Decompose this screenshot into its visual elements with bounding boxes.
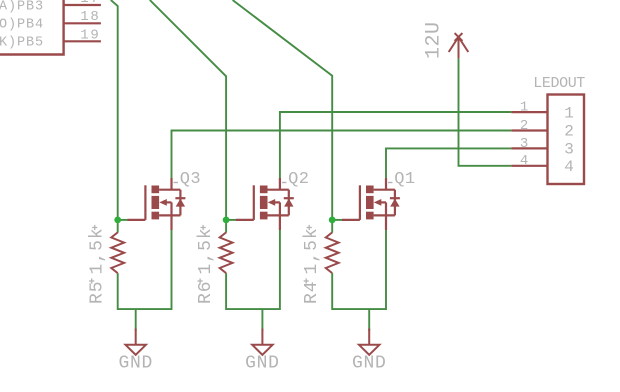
origin cross of R4 name [304,278,309,283]
svg-text:Q3: Q3 [180,170,201,189]
svg-text:Q2: Q2 [288,170,309,189]
svg-text:A)PB3: A)PB3 [0,0,44,14]
svg-text:R6: R6 [196,280,216,304]
svg-text:1,5k: 1,5k [302,227,322,274]
svg-text:1: 1 [520,100,528,116]
origin cross of R4 value [307,225,312,230]
ground symbol at x=262.4 [252,329,272,355]
LEDOUT pin 2 stub [511,129,547,131]
junction dot at Q1 gate node [329,217,336,224]
svg-text:1: 1 [564,104,574,122]
svg-text:GND: GND [352,354,387,374]
wire: Q3 drain to LEDOUT pin 2 [172,131,512,181]
transistor Q1 [342,178,400,230]
svg-text:2: 2 [564,123,574,141]
wire: R6 bottom to ground rail and up to Q2 source [226,228,280,309]
svg-text:O)PB4: O)PB4 [0,18,44,33]
svg-text:3: 3 [564,141,574,159]
wire: Q1 gate lead (net side) [332,219,343,221]
svg-text:Q1: Q1 [394,170,415,189]
IC U1 box (partial, top-left) [0,0,64,55]
wire: Q2 gate lead (net side) [226,219,237,221]
IC pin PB4 (pin 18) [64,22,101,24]
origin mark Q2 [282,182,287,184]
LEDOUT pin 1 stub [511,111,547,113]
wire: diagonal net to Q2 gate [150,0,226,233]
wire: R5 bottom to ground rail and up to Q3 source [118,228,172,309]
ground symbol at x=369.2 [359,329,379,355]
origin cross of R6 name [198,278,203,283]
wire: Q3 gnd stub [135,309,137,331]
svg-text:17: 17 [80,0,100,7]
LEDOUT pin 4 stub [511,165,547,167]
svg-text:1,5k: 1,5k [196,227,216,274]
svg-text:4: 4 [520,153,528,169]
transistor Q3 [128,178,186,230]
svg-text:18: 18 [80,9,100,25]
wire: Q1 drain to LEDOUT pin 3 [386,148,511,180]
transistor Q2 [236,178,294,230]
svg-text:R4: R4 [302,280,322,304]
supply symbol +12V arrow [449,33,469,58]
junction dot at Q3 gate node [114,217,121,224]
origin mark Q3 [174,182,179,184]
origin cross of R5 name [89,278,94,283]
resistor R5 1,5k [111,232,124,273]
svg-text:GND: GND [245,354,280,374]
svg-text:2: 2 [520,118,528,134]
IC pin PB3 (pin 17) [64,4,101,6]
origin mark Q1 [388,182,393,184]
svg-text:3: 3 [520,136,528,152]
resistor R4 1,5k [326,232,339,273]
origin cross of R5 value [92,225,97,230]
wire: Q3 gate lead (net side) [118,219,129,221]
svg-text:19: 19 [80,27,100,43]
wire: R4 bottom to ground rail and up to Q1 source [332,228,386,309]
svg-text:GND: GND [118,354,153,374]
wire: Q2 drain to LEDOUT pin 1 [280,112,511,180]
svg-text:4: 4 [564,158,574,176]
junction dot at Q2 gate node [223,217,230,224]
wire: 12V supply to LEDOUT pin 4 [459,58,512,165]
LEDOUT pin 3 stub [511,147,547,149]
svg-text:R5: R5 [87,280,107,304]
wire: Q2 gnd stub [261,309,263,331]
IC pin PB5 (pin 19) [64,40,101,42]
wire: Q1 gnd stub [368,309,370,331]
ground symbol at x=135.7 [126,329,146,355]
wire: net to Q3 gate, from top edge down [111,0,118,233]
svg-text:12U: 12U [422,21,445,59]
connector LEDOUT box [548,95,585,185]
svg-text:K)PB5: K)PB5 [0,36,44,51]
wire: diagonal net to Q1 gate [233,0,333,233]
svg-text:1,5k: 1,5k [87,227,107,274]
origin cross of R6 value [201,225,206,230]
svg-text:LEDOUT: LEDOUT [533,75,585,92]
resistor R6 1,5k [220,232,233,273]
